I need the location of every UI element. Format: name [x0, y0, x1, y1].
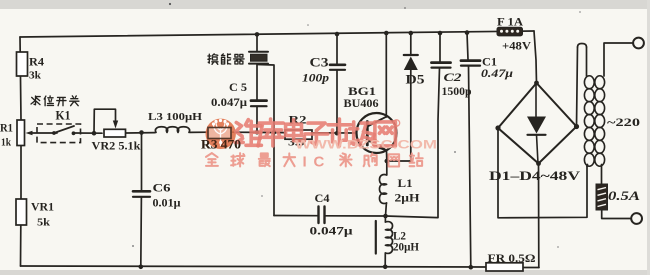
- svg-text:C6: C6: [153, 183, 171, 195]
- svg-text:VR2 5.1k: VR2 5.1k: [92, 141, 142, 153]
- svg-text:F 1A: F 1A: [497, 17, 524, 29]
- svg-text:2μH: 2μH: [395, 193, 420, 205]
- svg-text:C2: C2: [444, 70, 462, 84]
- svg-text:K1: K1: [56, 108, 71, 123]
- svg-text:0.01μ: 0.01μ: [153, 198, 181, 210]
- svg-text:0.5A: 0.5A: [608, 189, 640, 203]
- svg-text:L1: L1: [398, 178, 413, 190]
- svg-text:5k: 5k: [37, 217, 51, 229]
- svg-text:0.047μ: 0.047μ: [310, 224, 353, 238]
- svg-text:~220: ~220: [607, 115, 640, 129]
- svg-text:0.047μ: 0.047μ: [211, 97, 248, 109]
- svg-text:L3 100μH: L3 100μH: [148, 111, 202, 123]
- svg-text:+48V: +48V: [502, 41, 532, 53]
- svg-text:C 5: C 5: [229, 82, 247, 94]
- svg-text:R1: R1: [0, 121, 13, 135]
- svg-text:I: I: [303, 154, 307, 171]
- svg-text:3k: 3k: [29, 70, 42, 82]
- svg-text:R4: R4: [29, 55, 44, 69]
- svg-text:VR1: VR1: [31, 202, 54, 214]
- svg-text:0.47μ: 0.47μ: [481, 68, 514, 80]
- svg-text:100p: 100p: [302, 73, 329, 85]
- svg-text:FR 0.5Ω: FR 0.5Ω: [488, 253, 536, 265]
- svg-text:WWW.DZSC.COM: WWW.DZSC.COM: [295, 140, 437, 152]
- svg-text:C1: C1: [482, 57, 497, 69]
- svg-text:1k: 1k: [1, 137, 12, 149]
- svg-text:R3 470: R3 470: [201, 138, 241, 152]
- svg-text:BU406: BU406: [344, 96, 379, 110]
- svg-text:C3: C3: [310, 56, 329, 70]
- svg-text:C: C: [314, 154, 325, 171]
- svg-text:D5: D5: [406, 73, 425, 87]
- svg-text:D1–D4~48V: D1–D4~48V: [489, 168, 581, 183]
- svg-text:1500p: 1500p: [442, 84, 472, 98]
- svg-text:C4: C4: [315, 193, 330, 205]
- svg-text:20μH: 20μH: [393, 242, 419, 254]
